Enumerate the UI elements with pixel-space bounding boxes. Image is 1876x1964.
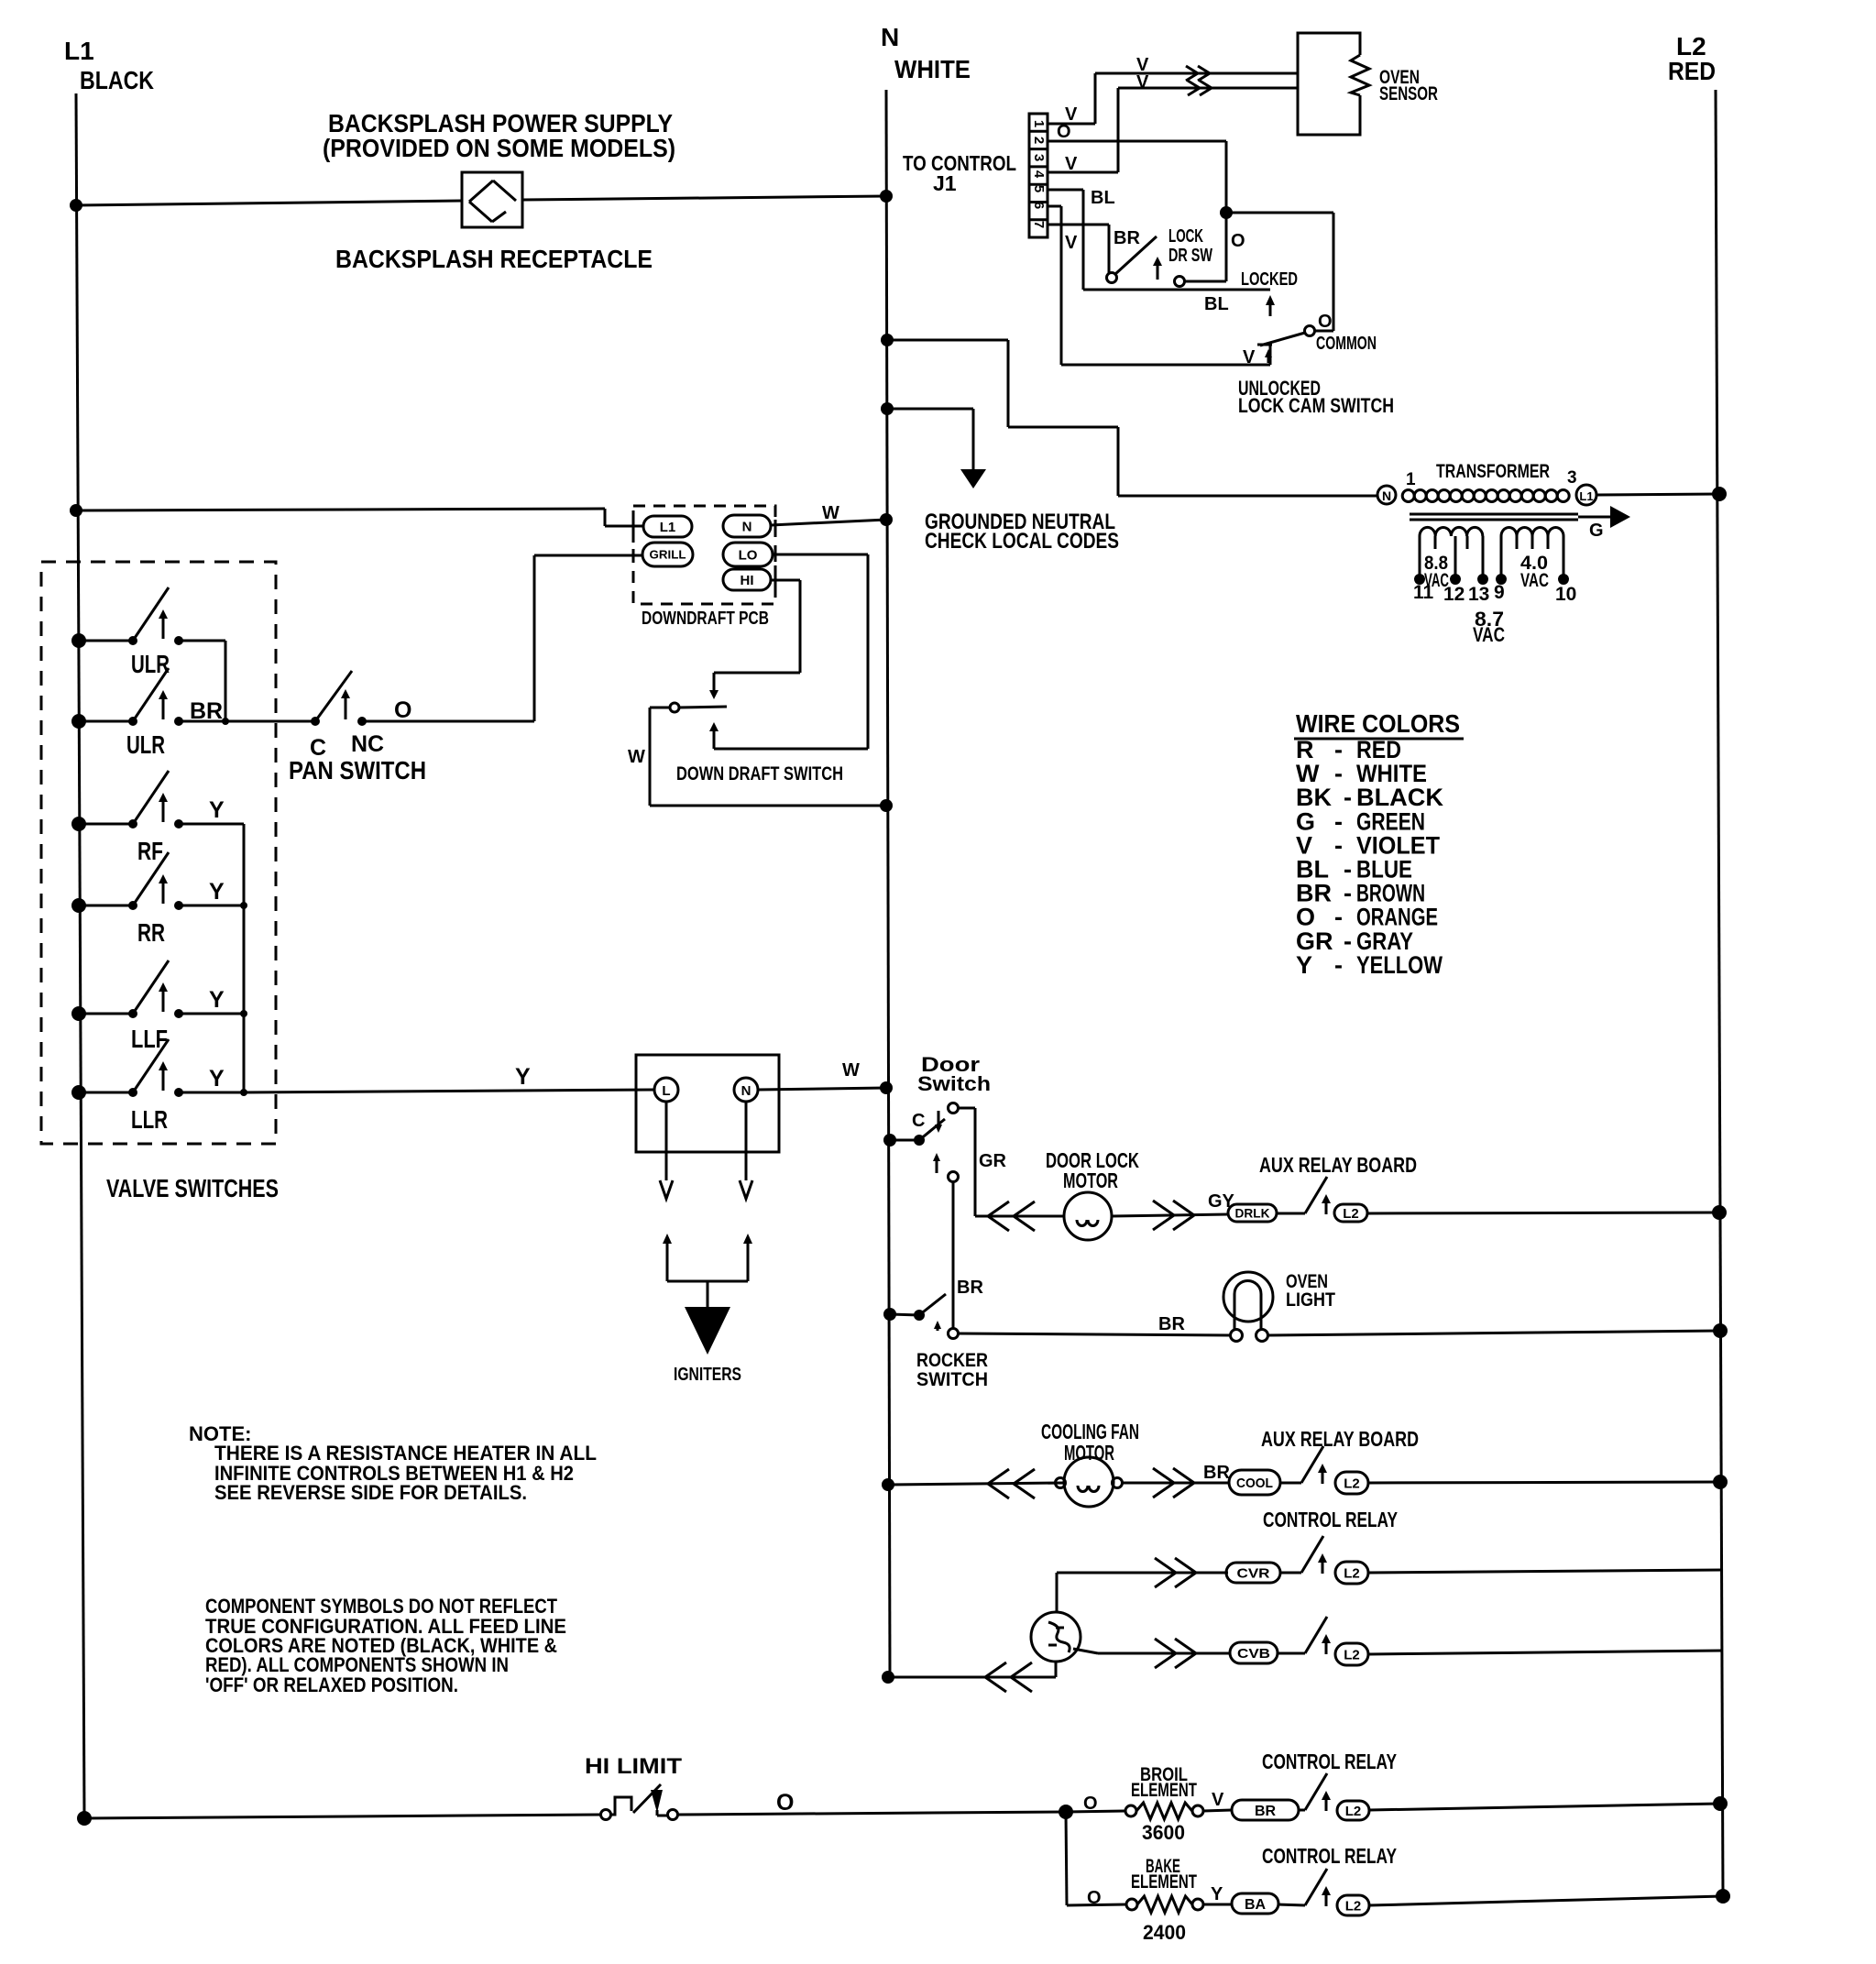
wire LLR contact xyxy=(179,1092,244,1094)
svg-text:LOCK: LOCK xyxy=(1168,226,1203,247)
svg-text:L1: L1 xyxy=(64,37,94,65)
svg-text:RR: RR xyxy=(137,918,165,947)
svg-text:HI: HI xyxy=(741,573,754,588)
svg-text:5: 5 xyxy=(1031,185,1047,192)
svg-text:11: 11 xyxy=(1413,582,1434,603)
svg-text:W: W xyxy=(822,503,839,523)
bake element resistor xyxy=(1126,1899,1137,1910)
wire N white rail (vertical) xyxy=(886,90,890,1677)
svg-text:13: 13 xyxy=(1468,584,1489,605)
svg-text:C: C xyxy=(912,1111,925,1131)
wire J1 pin4 V to oven sensor xyxy=(1048,171,1118,174)
arrow locked terminal xyxy=(1266,295,1275,305)
svg-text:DRLK: DRLK xyxy=(1235,1206,1270,1221)
wire Y valve to igniter xyxy=(244,1090,654,1092)
switch lock cam (common pivot) xyxy=(1305,326,1315,336)
wire backsplash supply row xyxy=(70,199,82,212)
wire down draft common to N rail xyxy=(650,707,670,709)
svg-text:12: 12 xyxy=(1443,584,1465,605)
svg-text:V: V xyxy=(1136,72,1149,93)
switch LLR xyxy=(71,1085,86,1100)
svg-text:Y: Y xyxy=(1296,951,1312,979)
switch door xyxy=(883,1134,896,1147)
svg-text:Y: Y xyxy=(515,1064,531,1090)
PCB terminal GRILL xyxy=(642,543,693,566)
svg-text:VALVE SWITCHES: VALVE SWITCHES xyxy=(106,1174,279,1202)
wire BR to relay xyxy=(1299,1809,1305,1812)
wire CVR L2 to rail xyxy=(1368,1570,1721,1573)
relay coil BR xyxy=(1232,1800,1299,1820)
svg-text:TO CONTROL: TO CONTROL xyxy=(903,151,1016,175)
svg-text:BL: BL xyxy=(1204,294,1229,314)
wire door lock motor to DRLK xyxy=(1112,1214,1228,1216)
relay control CVB xyxy=(1305,1617,1327,1653)
wire L1 to hi limit xyxy=(77,1811,92,1826)
clock lamp xyxy=(1031,1612,1081,1662)
svg-text:L2: L2 xyxy=(1343,1206,1359,1222)
wire lamp return to N rail xyxy=(1055,1662,1058,1677)
wire CVR row xyxy=(1057,1572,1228,1574)
wire door sw lower to rocker xyxy=(952,1181,955,1329)
wire ULR2 contact row xyxy=(179,720,315,723)
relay control CVR xyxy=(1301,1536,1323,1573)
svg-text:V: V xyxy=(1065,154,1078,174)
svg-text:W: W xyxy=(628,747,645,767)
svg-text:V: V xyxy=(1065,233,1078,253)
svg-text:O: O xyxy=(1231,231,1245,251)
svg-text:O: O xyxy=(776,1790,794,1816)
svg-text:ULR: ULR xyxy=(126,730,165,759)
svg-text:LIGHT: LIGHT xyxy=(1286,1289,1335,1311)
wire ULR1 contact xyxy=(179,640,225,642)
svg-text:DOWNDRAFT PCB: DOWNDRAFT PCB xyxy=(642,609,769,629)
svg-text:L: L xyxy=(662,1083,670,1099)
svg-text:V: V xyxy=(1212,1790,1224,1810)
igniter lead N arrow xyxy=(745,1102,748,1180)
svg-text:PAN SWITCH: PAN SWITCH xyxy=(289,756,426,785)
svg-text:N: N xyxy=(742,519,752,534)
svg-text:IGNITERS: IGNITERS xyxy=(674,1365,741,1385)
svg-text:Y: Y xyxy=(209,1066,225,1092)
down draft switch upper contact xyxy=(709,690,719,699)
svg-text:WHITE: WHITE xyxy=(894,55,971,83)
svg-text:V: V xyxy=(1243,347,1256,368)
svg-text:SENSOR: SENSOR xyxy=(1379,83,1438,104)
svg-text:Y: Y xyxy=(1211,1884,1223,1904)
wire oven light to rail xyxy=(1267,1331,1720,1335)
svg-text:3600: 3600 xyxy=(1142,1821,1185,1844)
svg-text:BR: BR xyxy=(1203,1463,1230,1483)
wire PCB HI lead xyxy=(771,579,800,582)
wire cooling fan to COOL xyxy=(1122,1482,1229,1485)
svg-text:BR: BR xyxy=(1158,1314,1185,1334)
svg-text:VAC: VAC xyxy=(1473,623,1505,646)
backsplash receptacle symbol xyxy=(462,172,522,227)
wire broil to BR coil xyxy=(1203,1810,1232,1811)
svg-text:MOTOR: MOTOR xyxy=(1064,1441,1114,1465)
svg-text:CHECK LOCAL CODES: CHECK LOCAL CODES xyxy=(925,529,1119,554)
svg-text:-: - xyxy=(1344,880,1352,907)
svg-text:-: - xyxy=(1334,951,1343,979)
svg-text:DR SW: DR SW xyxy=(1168,246,1212,266)
svg-text:-: - xyxy=(1344,784,1352,811)
wire L1 to downdraft PCB xyxy=(70,504,82,517)
svg-text:LOCK CAM SWITCH: LOCK CAM SWITCH xyxy=(1238,394,1394,417)
wire PCB GRILL lead xyxy=(534,554,642,557)
wire RF contact xyxy=(179,823,244,826)
oven sensor (resistor) xyxy=(1298,33,1360,135)
downdraft PCB dashed box xyxy=(633,506,775,604)
transformer secondary 8.8 VAC xyxy=(1420,527,1483,536)
switch rocker xyxy=(883,1308,896,1321)
igniter lead L arrow xyxy=(665,1102,668,1180)
PCB terminal LO xyxy=(723,543,773,566)
svg-text:MOTOR: MOTOR xyxy=(1063,1169,1118,1192)
igniter box xyxy=(636,1055,779,1152)
svg-text:BR: BR xyxy=(957,1278,983,1298)
relay control BA xyxy=(1305,1869,1327,1905)
svg-text:AUX RELAY BOARD: AUX RELAY BOARD xyxy=(1261,1427,1419,1451)
svg-text:7: 7 xyxy=(1031,221,1047,228)
svg-text:N: N xyxy=(881,23,899,51)
wire rocker to oven light xyxy=(958,1333,1231,1335)
svg-text:SWITCH: SWITCH xyxy=(916,1369,988,1390)
wire J1 pin6 V xyxy=(1048,205,1061,208)
svg-text:AUX RELAY BOARD: AUX RELAY BOARD xyxy=(1259,1153,1417,1177)
switch hi limit xyxy=(601,1810,611,1820)
switch RF xyxy=(71,817,86,831)
wire DRLK L2 to rail xyxy=(1367,1212,1719,1213)
wire break marks sensor wire 1 xyxy=(1186,73,1198,81)
wire bake to BA coil xyxy=(1203,1904,1232,1906)
svg-text:-: - xyxy=(1334,904,1343,931)
svg-text:J1: J1 xyxy=(933,171,957,195)
switch pan xyxy=(311,717,320,726)
svg-text:LO: LO xyxy=(739,547,758,563)
grounded neutral arrow xyxy=(960,469,986,488)
svg-text:DOWN DRAFT SWITCH: DOWN DRAFT SWITCH xyxy=(676,763,843,785)
node junction N rail to transformer xyxy=(881,334,894,346)
igniter terminal N xyxy=(734,1078,758,1102)
svg-text:2: 2 xyxy=(1031,137,1047,144)
svg-text:Y: Y xyxy=(209,879,225,905)
svg-text:Y: Y xyxy=(209,797,225,823)
svg-text:3: 3 xyxy=(1031,154,1047,161)
relay coil CVB xyxy=(1230,1642,1278,1663)
transformer primary coil xyxy=(1402,490,1414,502)
svg-text:L1: L1 xyxy=(660,520,676,535)
cam switch moving contact xyxy=(1269,345,1272,365)
wire grounded neutral stub xyxy=(887,408,973,411)
svg-text:BACKSPLASH RECEPTACLE: BACKSPLASH RECEPTACLE xyxy=(335,245,653,273)
switch RR xyxy=(71,898,86,913)
down draft switch pivot and arm xyxy=(670,703,679,712)
svg-text:TRANSFORMER: TRANSFORMER xyxy=(1436,461,1550,482)
svg-text:CONTROL RELAY: CONTROL RELAY xyxy=(1263,1508,1398,1531)
connector chevrons right (CVR) xyxy=(1155,1558,1176,1573)
wire BR L2 to rail xyxy=(1369,1804,1720,1810)
svg-text:LOCKED: LOCKED xyxy=(1241,269,1298,290)
down draft switch lower contact xyxy=(709,722,719,731)
svg-text:RF: RF xyxy=(137,837,163,865)
svg-text:N: N xyxy=(1382,488,1391,503)
connector chevrons right (cooling) xyxy=(1153,1468,1174,1483)
svg-text:BLACK: BLACK xyxy=(80,66,154,94)
broil element resistor xyxy=(1125,1805,1136,1816)
wire L2 red rail (vertical) xyxy=(1716,90,1723,1896)
svg-text:CONTROL RELAY: CONTROL RELAY xyxy=(1262,1750,1397,1773)
cooling fan motor xyxy=(1056,1478,1066,1488)
transformer core xyxy=(1410,513,1578,516)
wire door sw upper to GR xyxy=(958,1107,975,1110)
wire junction to bake row xyxy=(1066,1812,1067,1905)
relay coil BA xyxy=(1232,1893,1278,1914)
svg-text:L2: L2 xyxy=(1345,1898,1362,1914)
svg-text:VAC: VAC xyxy=(1520,570,1549,591)
svg-text:9: 9 xyxy=(1494,582,1505,603)
connector chevrons right (CVB) xyxy=(1155,1639,1176,1653)
svg-text:LLR: LLR xyxy=(131,1105,168,1134)
svg-text:2400: 2400 xyxy=(1143,1921,1186,1944)
PCB terminal N xyxy=(723,515,771,537)
svg-text:BR: BR xyxy=(1114,228,1140,248)
relay aux COOL xyxy=(1301,1446,1323,1483)
wire L1 black rail (vertical) xyxy=(76,93,84,1818)
switch lock dr sw xyxy=(1107,273,1117,283)
svg-text:L2: L2 xyxy=(1345,1804,1362,1819)
svg-text:HI LIMIT: HI LIMIT xyxy=(585,1754,682,1779)
wire J1 pin5 BL xyxy=(1048,189,1083,192)
svg-text:COOL: COOL xyxy=(1236,1476,1273,1491)
wire J1 pin1 V to oven sensor xyxy=(1048,123,1095,126)
wire LLF contact xyxy=(179,1013,244,1015)
wire break marks sensor wire 2 xyxy=(1188,88,1200,95)
switch ULR 2 xyxy=(71,714,86,729)
svg-text:6: 6 xyxy=(1031,202,1047,209)
relay aux DRLK xyxy=(1305,1177,1327,1213)
svg-text:4: 4 xyxy=(1031,170,1047,179)
wire lamp to CVB xyxy=(1073,1649,1098,1653)
relay coil CVR xyxy=(1226,1563,1280,1583)
svg-text:BR: BR xyxy=(190,698,223,724)
wire GR to door lock motor xyxy=(975,1215,1064,1218)
svg-text:1: 1 xyxy=(1406,470,1416,489)
svg-text:CVR: CVR xyxy=(1237,1565,1270,1581)
wire junction to cam switch xyxy=(1226,212,1333,214)
wire J1 pin7 BR xyxy=(1048,224,1109,226)
PCB terminal HI xyxy=(723,569,771,590)
node junction O wire xyxy=(1220,206,1233,219)
transformer primary terminal L1 xyxy=(1576,485,1596,505)
relay coil DRLK xyxy=(1228,1204,1277,1222)
svg-text:-: - xyxy=(1344,927,1352,955)
svg-text:ROCKER: ROCKER xyxy=(916,1350,988,1371)
connector chevrons left (cooling) xyxy=(988,1469,1009,1484)
svg-text:BA: BA xyxy=(1245,1897,1267,1913)
svg-text:ELEMENT: ELEMENT xyxy=(1131,1871,1197,1893)
wire CVB to relay xyxy=(1278,1652,1305,1655)
PCB terminal L1 xyxy=(643,516,692,537)
transformer primary terminal N xyxy=(1377,486,1396,504)
svg-text:RED: RED xyxy=(1668,57,1716,85)
wire RR contact xyxy=(179,905,244,907)
wire DRLK to relay xyxy=(1277,1212,1305,1215)
svg-text:-: - xyxy=(1334,760,1343,787)
svg-text:-: - xyxy=(1334,831,1343,859)
igniter ground triangle xyxy=(685,1307,730,1355)
wire N to transformer primary xyxy=(887,339,1008,342)
svg-text:Y: Y xyxy=(209,987,225,1013)
svg-text:BL: BL xyxy=(1091,188,1115,208)
transformer shield ground arrow xyxy=(1578,516,1610,519)
switch LLF xyxy=(71,1006,86,1021)
svg-text:'OFF' OR RELAXED POSITION.: 'OFF' OR RELAXED POSITION. xyxy=(205,1673,458,1696)
switch ULR 1 xyxy=(71,633,86,648)
node junction broil bake xyxy=(1059,1805,1073,1819)
connector chevrons right (door lock) xyxy=(1153,1201,1174,1215)
svg-text:GY: GY xyxy=(1208,1191,1235,1212)
door lock motor xyxy=(1064,1192,1112,1240)
node junction N rail grounded neutral xyxy=(881,402,894,415)
wire PCB N to rail (W) xyxy=(771,520,886,525)
connector J1 box xyxy=(1029,114,1048,237)
svg-text:(PROVIDED ON SOME MODELS): (PROVIDED ON SOME MODELS) xyxy=(323,134,675,162)
svg-text:YELLOW: YELLOW xyxy=(1356,951,1443,979)
svg-text:CONTROL RELAY: CONTROL RELAY xyxy=(1262,1844,1397,1868)
svg-text:O: O xyxy=(394,697,411,723)
svg-text:O: O xyxy=(1318,312,1333,332)
svg-text:CVB: CVB xyxy=(1237,1646,1270,1662)
svg-text:SEE REVERSE SIDE FOR DETAILS.: SEE REVERSE SIDE FOR DETAILS. xyxy=(214,1481,527,1504)
wire junction to broil xyxy=(1066,1811,1125,1812)
wire CVR to relay xyxy=(1280,1572,1301,1574)
svg-text:10: 10 xyxy=(1555,584,1576,605)
relay control BR xyxy=(1305,1773,1327,1810)
wire COOL to relay xyxy=(1280,1482,1301,1485)
wire transformer L1 to L2 rail xyxy=(1596,494,1719,495)
wire PCB LO lead xyxy=(773,554,868,556)
wire N rail to cooling fan xyxy=(882,1478,894,1491)
svg-text:N: N xyxy=(741,1083,751,1099)
oven light xyxy=(1223,1272,1273,1322)
wire CVR corner to lamp xyxy=(1056,1573,1059,1613)
svg-text:BR: BR xyxy=(1255,1804,1277,1819)
svg-text:COMMON: COMMON xyxy=(1316,334,1377,354)
svg-text:L2: L2 xyxy=(1344,1647,1360,1662)
igniter terminal L xyxy=(654,1078,678,1102)
svg-text:GRILL: GRILL xyxy=(650,548,686,562)
valve switches dashed box xyxy=(41,562,276,1144)
svg-text:L2: L2 xyxy=(1344,1565,1360,1581)
svg-text:W: W xyxy=(842,1060,860,1081)
wire BA L2 to rail xyxy=(1369,1896,1723,1905)
svg-text:L2: L2 xyxy=(1344,1476,1360,1491)
svg-text:GR: GR xyxy=(979,1151,1007,1171)
igniter return arrows xyxy=(663,1234,672,1244)
wire igniter N to rail (W) xyxy=(758,1088,886,1090)
transformer secondary 4.0 VAC xyxy=(1501,528,1563,537)
wire CVB L2 to rail xyxy=(1368,1651,1722,1654)
wire hi limit to junction xyxy=(677,1812,1066,1815)
svg-text:O: O xyxy=(1057,122,1071,142)
wire BA to relay xyxy=(1278,1904,1305,1905)
svg-text:Switch: Switch xyxy=(917,1072,991,1095)
svg-text:L1: L1 xyxy=(1579,489,1593,503)
connector chevrons left (CVB return) xyxy=(985,1662,1006,1677)
svg-text:1: 1 xyxy=(1031,120,1047,127)
wire COOL L2 to rail xyxy=(1368,1482,1720,1483)
svg-text:WIRE COLORS: WIRE COLORS xyxy=(1296,709,1460,738)
wire pan NC to grill riser xyxy=(362,720,534,723)
connector chevrons left (door lock) xyxy=(988,1201,1009,1216)
svg-text:NC: NC xyxy=(351,731,384,757)
wire J1 pin2 O xyxy=(1048,140,1226,143)
svg-text:3: 3 xyxy=(1567,468,1577,488)
relay coil COOL xyxy=(1229,1470,1280,1495)
svg-text:ELEMENT: ELEMENT xyxy=(1131,1780,1197,1801)
wire bake stub xyxy=(1067,1904,1126,1905)
svg-text:G: G xyxy=(1589,521,1604,541)
